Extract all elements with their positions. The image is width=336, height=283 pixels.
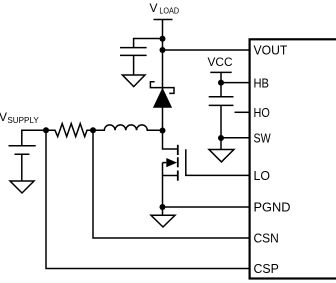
svg-text:V: V (0, 110, 7, 124)
svg-text:LO: LO (254, 169, 271, 183)
svg-text:V: V (150, 1, 158, 15)
svg-text:SUPPLY: SUPPLY (7, 115, 39, 125)
svg-text:HB: HB (254, 76, 270, 90)
svg-text:SW: SW (254, 132, 271, 146)
svg-text:CSN: CSN (254, 232, 279, 246)
svg-text:VOUT: VOUT (254, 44, 288, 58)
svg-text:HO: HO (254, 106, 271, 120)
svg-text:PGND: PGND (254, 201, 291, 215)
svg-text:LOAD: LOAD (159, 6, 179, 16)
svg-text:CSP: CSP (254, 262, 279, 276)
svg-text:VCC: VCC (208, 55, 233, 69)
